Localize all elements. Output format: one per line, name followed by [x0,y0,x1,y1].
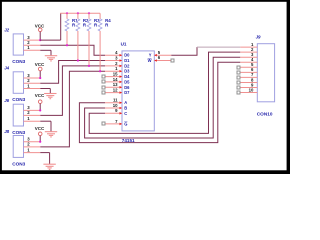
svg-text:A: A [124,100,127,105]
svg-text:D5: D5 [124,79,130,84]
svg-text:J6: J6 [4,98,9,103]
svg-text:Y: Y [149,53,152,58]
svg-text:D0: D0 [124,53,130,58]
svg-text:B: B [124,106,127,111]
svg-text:D7: D7 [124,90,130,95]
svg-text:VCC: VCC [35,62,45,67]
svg-text:CON3: CON3 [12,59,25,64]
svg-text:VCC: VCC [35,93,45,98]
svg-text:13: 13 [113,82,118,87]
svg-text:J8: J8 [4,129,9,134]
svg-text:12: 12 [113,88,118,93]
svg-text:D6: D6 [124,85,130,90]
svg-text:CON3: CON3 [12,97,25,102]
svg-text:15: 15 [113,72,118,77]
svg-text:J2: J2 [4,28,9,33]
svg-text:CON3: CON3 [12,130,25,135]
svg-text:W: W [148,58,152,63]
svg-text:D2: D2 [124,63,130,68]
svg-text:11: 11 [113,98,118,103]
svg-text:14: 14 [113,77,118,82]
svg-text:10: 10 [113,103,118,108]
svg-text:J4: J4 [4,65,9,70]
svg-text:CON10: CON10 [257,111,273,116]
svg-text:G: G [124,122,127,127]
svg-text:VCC: VCC [35,126,45,131]
svg-text:10: 10 [249,87,254,92]
svg-text:D1: D1 [124,58,130,63]
svg-text:CON3: CON3 [12,161,25,166]
svg-text:74151: 74151 [122,138,135,143]
svg-text:D3: D3 [124,69,130,74]
svg-text:C: C [124,111,127,116]
svg-text:J9: J9 [256,35,261,40]
svg-text:U1: U1 [121,41,127,46]
svg-text:D4: D4 [124,74,130,79]
